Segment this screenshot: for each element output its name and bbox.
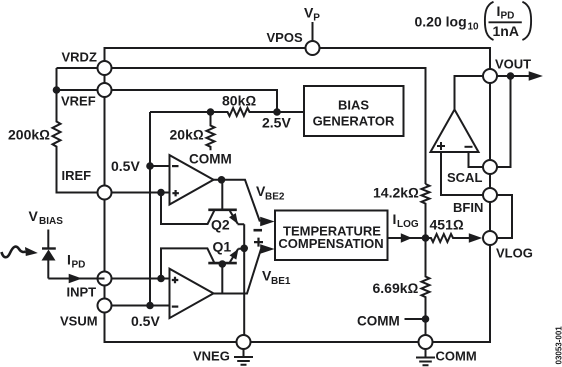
pin INPT	[67, 272, 112, 300]
resistor 6.69kΩ	[373, 238, 430, 335]
node Q1 base junction	[219, 260, 227, 268]
svg-text:COMPENSATION: COMPENSATION	[278, 236, 383, 251]
wire IPD into INPT	[48, 278, 104, 280]
svg-text:BFIN: BFIN	[453, 200, 483, 215]
svg-text:I: I	[67, 252, 71, 268]
svg-text:BIAS: BIAS	[39, 216, 63, 227]
pin BFIN	[453, 188, 497, 215]
wire BFIN to VLOG external loop	[497, 195, 512, 238]
svg-text:200kΩ: 200kΩ	[8, 127, 50, 143]
wire VRDZ rail to 14.2k	[105, 68, 426, 184]
wire buffer inverting to SCAL	[469, 152, 484, 167]
wire VSUM input	[105, 305, 171, 307]
pin VNEG	[193, 335, 251, 364]
svg-text:I: I	[393, 211, 397, 227]
svg-text:COMM: COMM	[436, 349, 477, 364]
svg-text:INPT: INPT	[67, 285, 97, 300]
wire VREF rail to 2.5V node	[105, 90, 278, 112]
light squiggle arrow	[2, 247, 38, 258]
svg-text:V: V	[29, 208, 39, 224]
pin VREF	[61, 83, 112, 109]
svg-text:1nA: 1nA	[493, 23, 519, 39]
pin VRDZ	[62, 50, 112, 76]
transistor Q1	[208, 239, 244, 294]
svg-text:GENERATOR: GENERATOR	[313, 114, 395, 129]
pin COMM	[419, 335, 477, 364]
svg-text:COMM: COMM	[357, 314, 400, 329]
wire ILOG output	[388, 237, 426, 239]
svg-text:2.5V: 2.5V	[262, 115, 291, 131]
svg-text:14.2kΩ: 14.2kΩ	[373, 185, 419, 201]
resistor 14.2kΩ	[373, 184, 430, 238]
node 0.5V op-amp1 junction	[146, 162, 154, 170]
minus input arrow of temp comp	[260, 217, 274, 227]
svg-text:PD: PD	[501, 11, 515, 22]
pin VPOS	[267, 30, 320, 55]
wire Q1 collector feedback	[161, 248, 214, 278]
svg-text:VSUM: VSUM	[60, 314, 98, 329]
bias generator block	[304, 86, 404, 136]
node emitter junction	[240, 245, 248, 253]
plus input arrow of temp comp	[260, 244, 274, 254]
node op-amp1 output junction	[218, 176, 226, 184]
label IPD	[67, 252, 85, 271]
svg-text:COMM: COMM	[189, 152, 232, 167]
svg-text:IREF: IREF	[62, 168, 92, 183]
node 2.5V junction	[273, 108, 281, 116]
temperature compensation block	[275, 211, 388, 261]
svg-text:451Ω: 451Ω	[430, 217, 464, 233]
node VOUT feedback junction	[507, 72, 515, 80]
node op-amp1 noninverting junction	[157, 189, 165, 197]
resistor 20kΩ	[170, 112, 215, 150]
svg-text:BE2: BE2	[265, 192, 285, 203]
svg-text:Q1: Q1	[213, 239, 232, 255]
node COMM tap junction	[422, 315, 430, 323]
node ILOG junction	[422, 234, 430, 242]
svg-text:80kΩ: 80kΩ	[222, 93, 256, 109]
svg-text:BIAS: BIAS	[338, 98, 369, 113]
svg-text:0.5V: 0.5V	[131, 313, 160, 329]
formula 0.20 log10 (IPD/1nA)	[415, 2, 532, 40]
wire op-amp1 inverting input	[150, 165, 170, 167]
label VBE2	[256, 183, 285, 203]
svg-text:PD: PD	[72, 260, 86, 271]
svg-text:LOG: LOG	[397, 219, 419, 230]
svg-text:VREF: VREF	[61, 94, 96, 109]
arrow IPD	[69, 274, 82, 284]
wire 0.5V column	[149, 112, 151, 306]
svg-text:VRDZ: VRDZ	[62, 50, 97, 65]
svg-text:0.5V: 0.5V	[111, 158, 140, 174]
svg-text:VOUT: VOUT	[495, 57, 531, 72]
pin VOUT	[483, 57, 531, 84]
node op-amp2 noninverting junction	[157, 275, 165, 283]
pin VLOG	[483, 231, 533, 261]
resistor 80kΩ	[150, 93, 277, 117]
svg-text:10: 10	[468, 22, 480, 33]
wire VOUT output with arrow	[497, 75, 529, 77]
node 20k tap junction	[207, 108, 215, 116]
photodiode D1	[29, 208, 64, 279]
svg-text:Q2: Q2	[211, 217, 230, 233]
wire COMM label stub	[405, 318, 426, 320]
wire IREF input	[105, 192, 171, 194]
svg-text:0.20 log: 0.20 log	[415, 14, 467, 30]
svg-text:VLOG: VLOG	[496, 246, 533, 261]
wire VREF external stub	[57, 89, 105, 91]
wire op-amp2 output	[214, 249, 262, 294]
pin IREF	[62, 168, 112, 200]
svg-text:BE1: BE1	[271, 276, 291, 287]
node 0.5V op-amp2 junction	[146, 302, 154, 310]
wire Q2/Q1 emitters to VNEG	[243, 224, 245, 335]
node VREF/VRDZ tie junction	[53, 86, 61, 94]
wire op-amp1 output	[214, 180, 260, 222]
svg-text:6.69kΩ: 6.69kΩ	[373, 280, 419, 296]
transistor Q2	[208, 180, 244, 233]
buffer op-amp U3	[431, 110, 479, 153]
svg-text:VNEG: VNEG	[193, 349, 230, 364]
minus label	[254, 229, 263, 232]
wire INPT input	[105, 278, 171, 280]
wire buffer output to VOUT	[455, 76, 484, 110]
pin VSUM	[60, 299, 112, 329]
resistor 200kΩ	[8, 90, 105, 193]
wire buffer noninverting to BFIN	[441, 152, 483, 195]
op-amp U1	[170, 155, 214, 204]
svg-text:VPOS: VPOS	[267, 30, 303, 45]
op-amp U2	[170, 269, 214, 318]
label ILOG	[393, 211, 419, 230]
wire Q2 collector feedback	[161, 193, 214, 225]
resistor 451Ω	[426, 217, 470, 243]
plus label	[254, 238, 263, 247]
wire 2.5V to bias generator	[277, 111, 304, 113]
label VBE1	[262, 268, 291, 288]
arrow ILOG	[401, 233, 412, 242]
svg-text:SCAL: SCAL	[447, 170, 482, 185]
supply VP stub	[304, 4, 320, 41]
pin SCAL	[447, 160, 497, 185]
chip boundary	[105, 48, 491, 342]
svg-text:P: P	[313, 12, 320, 23]
wire VRDZ external stub	[57, 68, 105, 90]
svg-text:20kΩ: 20kΩ	[170, 127, 204, 143]
arrow into VLOG	[469, 233, 482, 243]
ground at COMM	[416, 349, 435, 365]
wire VOUT to SCAL feedback	[497, 76, 511, 167]
svg-text:03053-001: 03053-001	[554, 326, 562, 365]
ground at VNEG	[234, 349, 253, 365]
